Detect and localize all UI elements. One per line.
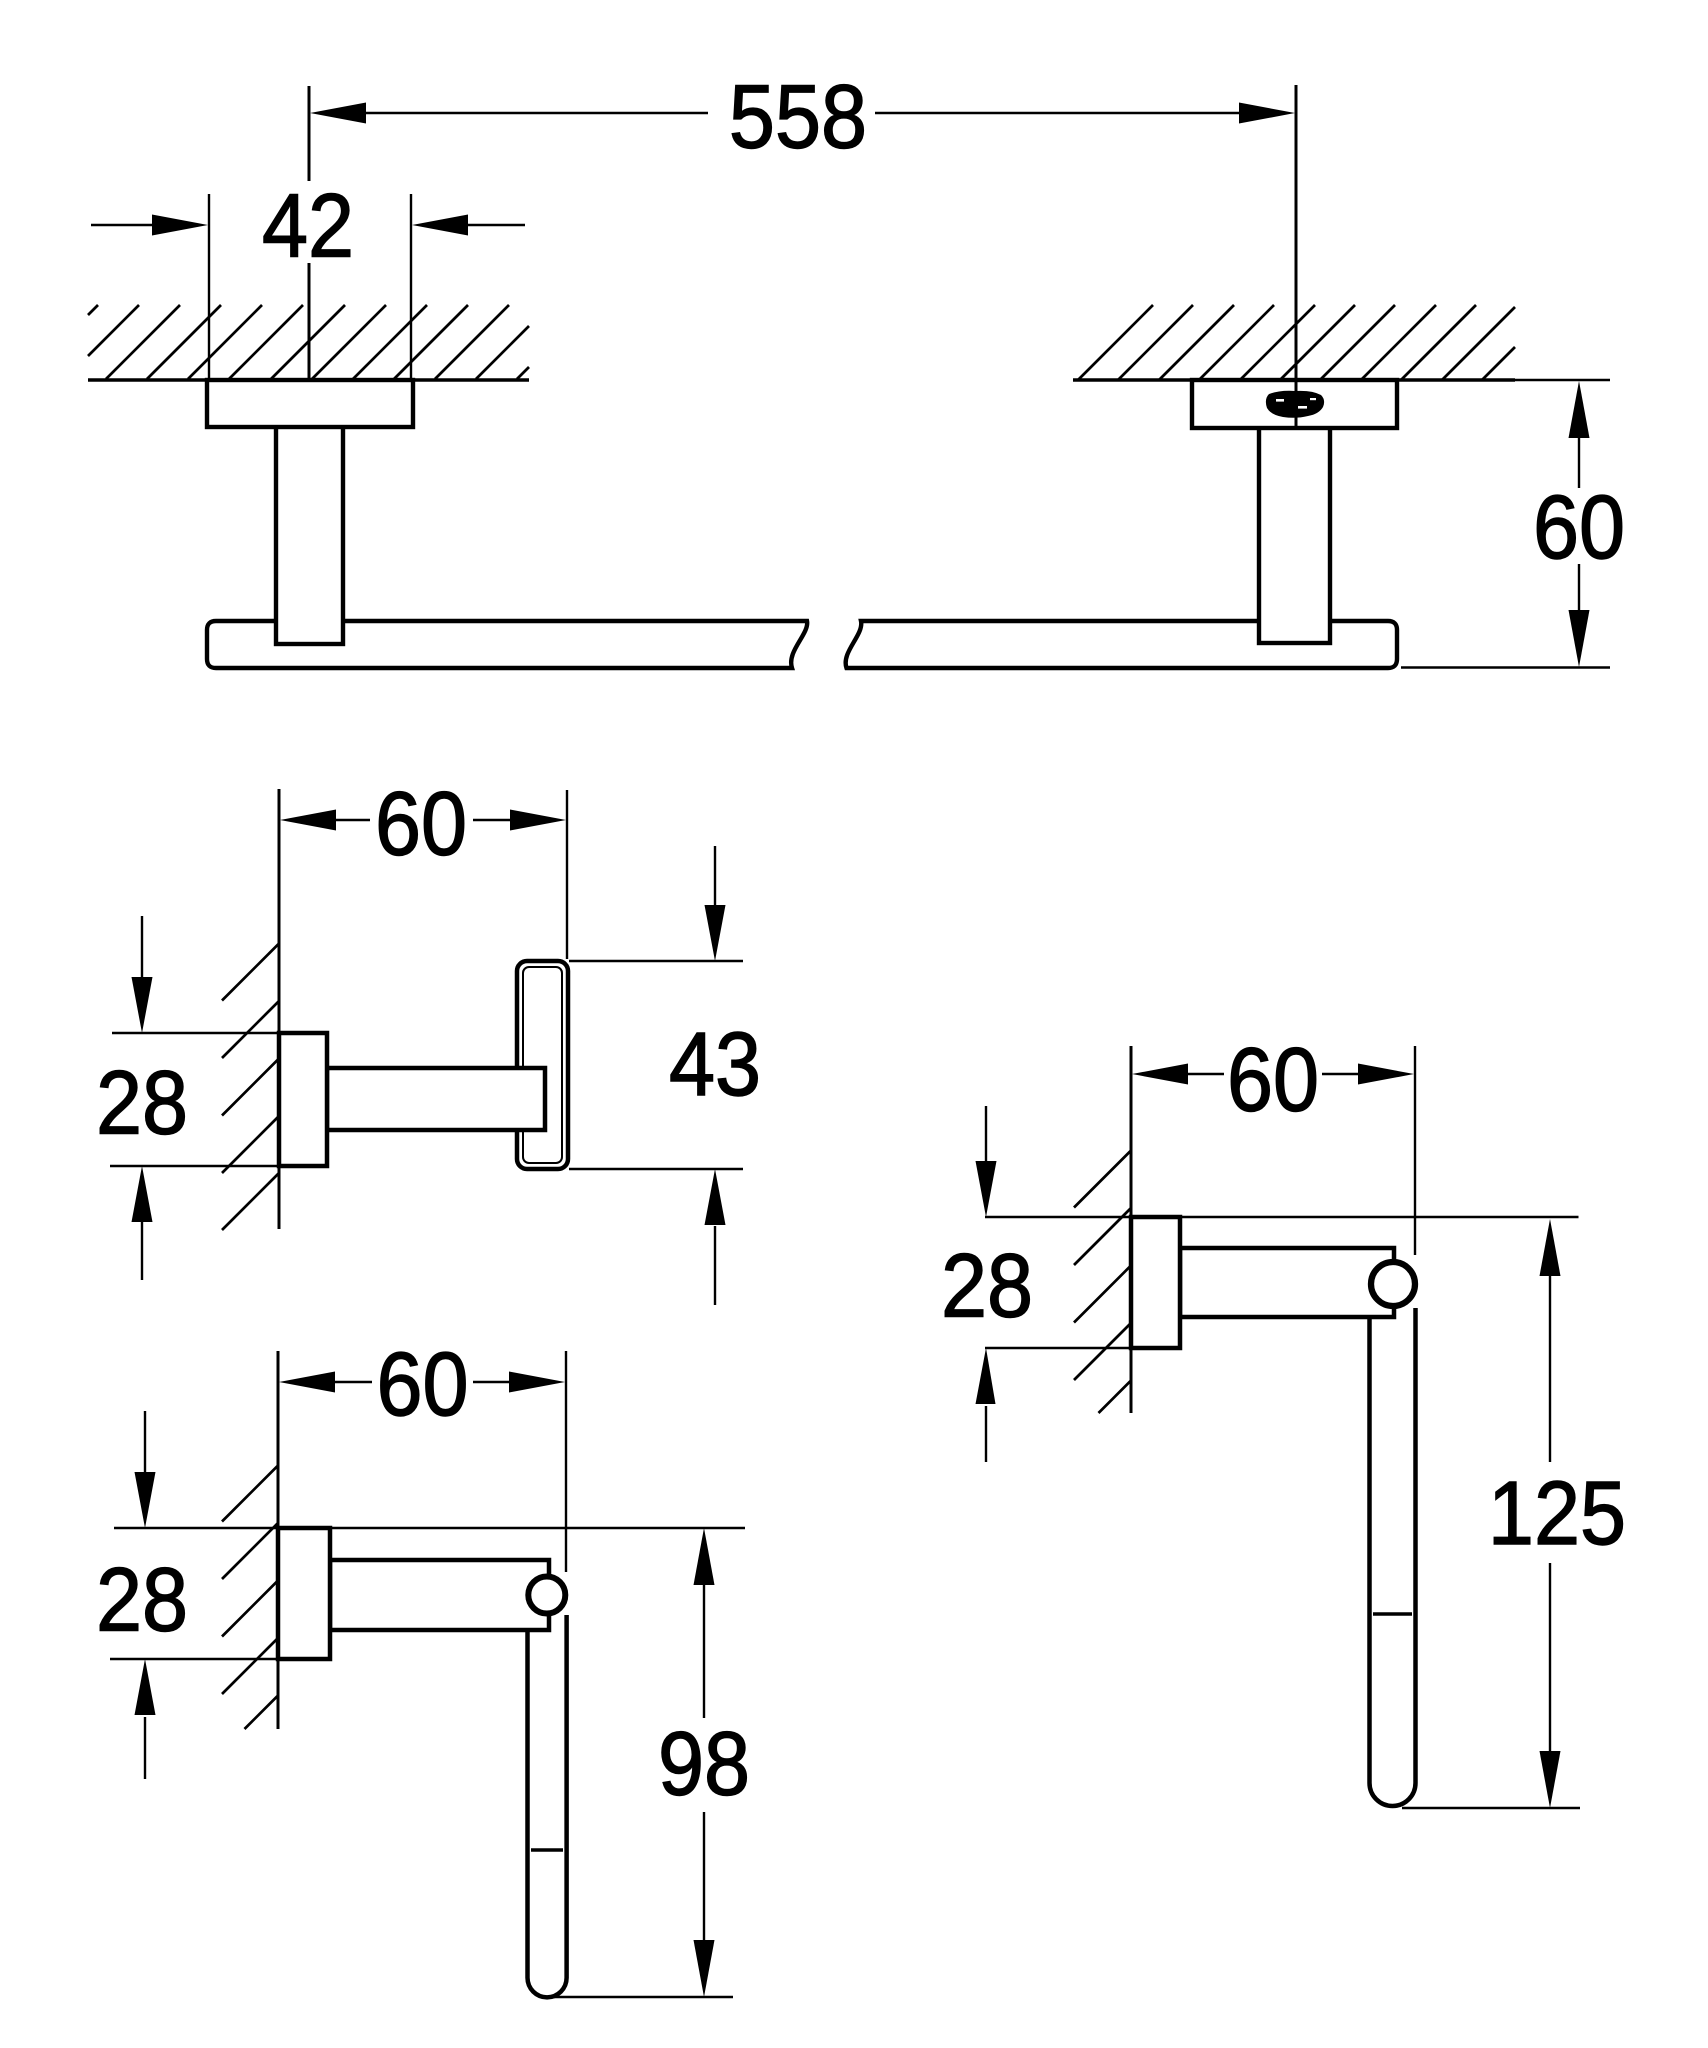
dimension 558 line xyxy=(366,112,708,114)
dimension 60 right extension line xyxy=(1414,1046,1416,1255)
dimension 60 top extension xyxy=(1515,379,1610,381)
dimension 42 line left xyxy=(91,224,153,226)
dimension 28 down arrow xyxy=(141,916,143,978)
dimension 42 line right xyxy=(468,224,525,226)
wall plate xyxy=(278,1528,330,1659)
wall face line xyxy=(1130,1046,1133,1413)
dimension 28 top reference line xyxy=(112,1032,277,1034)
wall face line xyxy=(277,1351,280,1729)
dimension 60 right arrowhead xyxy=(509,1372,565,1393)
hook arm xyxy=(327,1068,545,1130)
dimension 28 top reference line xyxy=(114,1527,745,1529)
wall hatching right xyxy=(1078,305,1153,380)
left bracket wall plate xyxy=(207,380,413,427)
dimension 60 line xyxy=(1578,438,1580,488)
svg-text:42: 42 xyxy=(262,176,354,276)
svg-text:28: 28 xyxy=(96,1550,188,1650)
svg-text:98: 98 xyxy=(658,1714,750,1814)
dimension 60 right extension line xyxy=(565,1351,567,1572)
dimension 125 down arrowhead xyxy=(1540,1751,1561,1808)
svg-text:60: 60 xyxy=(1533,478,1625,578)
dimension 60 left arrowhead xyxy=(1132,1064,1188,1085)
dimension 28 bottom reference line xyxy=(110,1165,277,1167)
paper roll bar xyxy=(528,1596,567,1997)
dimension 28 bottom reference line xyxy=(110,1658,277,1660)
left bracket post xyxy=(276,420,343,644)
pivot circle xyxy=(528,1577,565,1614)
hook front plate outer xyxy=(517,961,568,1169)
towel bar left segment (with break) xyxy=(207,621,807,668)
dimension 60 down arrowhead xyxy=(1569,610,1590,667)
dimension 125 up arrowhead xyxy=(1540,1219,1561,1276)
dimension 60 left arrowhead xyxy=(280,810,336,831)
dimension 60 line xyxy=(334,1381,372,1383)
wall hatching left xyxy=(88,305,98,315)
dimension 28 down arrow xyxy=(985,1106,987,1162)
hook front plate inner edge xyxy=(523,967,562,1163)
dimension 28 bottom reference line xyxy=(985,1347,1130,1349)
wall hatching xyxy=(222,944,279,1001)
dimension 28 down arrow xyxy=(144,1411,146,1473)
wall line right xyxy=(1073,378,1515,381)
paper roll bar spring joint line xyxy=(1373,1612,1412,1615)
centerline right bracket xyxy=(1295,85,1298,427)
svg-text:28: 28 xyxy=(941,1236,1033,1336)
right bracket wall plate xyxy=(1192,380,1397,428)
dimension 125 line xyxy=(1549,1276,1551,1462)
hook wall plate xyxy=(279,1033,327,1166)
dimension 98 down arrowhead xyxy=(694,1940,715,1997)
svg-text:125: 125 xyxy=(1488,1464,1626,1564)
holder arm xyxy=(1180,1248,1394,1317)
pivot circle xyxy=(1371,1262,1415,1306)
dimension 98 up arrowhead xyxy=(694,1528,715,1585)
dimension 98 line xyxy=(703,1585,705,1718)
dimension 28 top reference line xyxy=(985,1216,1579,1218)
dimension 558 right arrowhead xyxy=(1239,103,1295,124)
wall plate xyxy=(1131,1217,1180,1348)
holder arm xyxy=(330,1560,549,1630)
dimension 125 bottom reference line xyxy=(1402,1807,1580,1809)
dimension 60 bottom extension xyxy=(1401,666,1610,668)
towel bar right segment (with break) xyxy=(846,621,1397,668)
dimension 42 right arrowhead xyxy=(412,215,468,236)
wall line left xyxy=(88,378,529,381)
dimension 60 left arrowhead xyxy=(279,1372,335,1393)
dimension 42 extension line left xyxy=(208,194,210,378)
dimension 60 right arrowhead xyxy=(1358,1064,1414,1085)
svg-text:558: 558 xyxy=(729,67,867,167)
dimension 60 up arrowhead xyxy=(1569,381,1590,438)
dimension 28 up arrow xyxy=(985,1406,987,1462)
dimension 42 extension line right xyxy=(410,194,412,378)
dimension 60 line xyxy=(335,819,370,821)
centerline left bracket xyxy=(308,86,311,181)
svg-text:43: 43 xyxy=(669,1015,761,1115)
dimension 28 up arrow xyxy=(141,1222,143,1280)
dimension 43 down arrow xyxy=(714,846,716,906)
dimension 43 bottom reference line xyxy=(569,1168,743,1170)
wall hatching xyxy=(1074,1151,1131,1208)
dimension 98 bottom reference line xyxy=(553,1996,733,1998)
dimension 42 left arrowhead xyxy=(152,215,208,236)
dimension 28 up arrow xyxy=(144,1717,146,1779)
svg-text:60: 60 xyxy=(375,774,467,874)
right bracket post xyxy=(1259,420,1330,643)
wall hatching xyxy=(222,1466,278,1522)
paper roll bar spring joint line xyxy=(531,1848,563,1851)
GROHE logo mark xyxy=(1266,391,1324,418)
wall face line xyxy=(278,789,281,1229)
dimension 60 right extension line xyxy=(566,790,568,959)
dimension 43 top reference line xyxy=(569,960,743,962)
svg-text:60: 60 xyxy=(376,1335,468,1435)
svg-text:28: 28 xyxy=(96,1053,188,1153)
dimension 558 left arrowhead xyxy=(310,103,366,124)
dimension 43 up arrow xyxy=(714,1226,716,1305)
svg-text:60: 60 xyxy=(1227,1030,1319,1130)
dimension 60 line xyxy=(1187,1073,1224,1075)
paper roll bar xyxy=(1370,1285,1416,1806)
dimension 60 right arrowhead xyxy=(510,810,566,831)
